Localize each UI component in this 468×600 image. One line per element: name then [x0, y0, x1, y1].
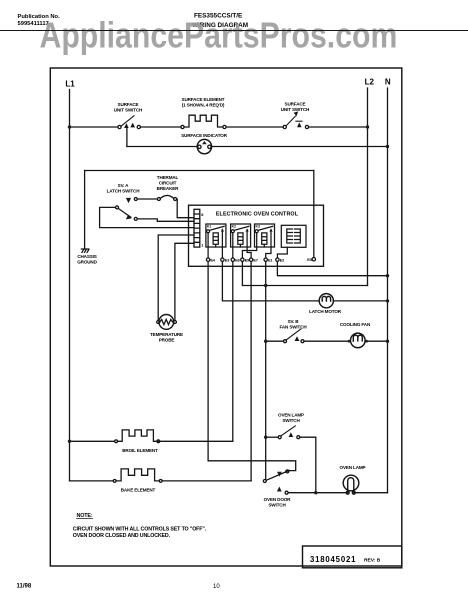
- svg-text:GROUND: GROUND: [77, 260, 97, 265]
- svg-text:SURFACE: SURFACE: [118, 102, 139, 107]
- wire relay3 contact to pin OE9: [242, 233, 256, 258]
- pin OE3: [221, 257, 230, 262]
- svg-text:318045021: 318045021: [310, 555, 356, 564]
- connector strip: [194, 209, 200, 247]
- surface indicator: [197, 139, 211, 153]
- wire relay2 contact to pin OE8: [232, 233, 234, 258]
- temperature probe: [157, 315, 177, 330]
- outer border: [50, 68, 402, 566]
- wire indicator drop: [126, 128, 128, 147]
- svg-text:11/98: 11/98: [17, 584, 32, 590]
- svg-text:SWITCH: SWITCH: [268, 503, 286, 508]
- relay K2: [231, 224, 251, 247]
- wire OE8 drop to broil: [232, 262, 234, 442]
- svg-text:K1: K1: [207, 225, 211, 229]
- label oven door switch: [264, 497, 292, 508]
- pin OE4: [206, 257, 215, 262]
- svg-text:L2: L2: [365, 77, 375, 86]
- label SV. A latch switch: [107, 183, 141, 194]
- relay K3: [255, 224, 275, 247]
- pin number 8: [201, 212, 204, 217]
- svg-text:L1: L1: [65, 80, 75, 89]
- node L1: [65, 80, 75, 89]
- node L2: [365, 77, 375, 86]
- wire L2 rail: [367, 88, 369, 286]
- header model number: [192, 13, 248, 29]
- label broil element: [122, 448, 158, 453]
- svg-text:CHASSIS: CHASSIS: [77, 254, 96, 259]
- part number text: [310, 555, 381, 564]
- label latch motor: [309, 309, 342, 314]
- svg-text:LATCH MOTOR: LATCH MOTOR: [309, 309, 342, 314]
- wire OE4 drop to oven door NC: [208, 262, 296, 471]
- svg-text:SWITCH: SWITCH: [282, 418, 300, 423]
- wire breaker to connector pin: [177, 199, 194, 218]
- pin OE7: [249, 257, 257, 262]
- svg-text:BROIL ELEMENT: BROIL ELEMENT: [122, 448, 158, 453]
- footer page number: [213, 584, 220, 590]
- part number box: [303, 546, 402, 568]
- wire OE3 drop to latch motor row: [222, 262, 319, 301]
- latch switch SV.A: [116, 198, 158, 221]
- wire probe lead left: [158, 235, 194, 321]
- pin OE8: [231, 257, 240, 262]
- header publication number: [18, 14, 61, 27]
- thermal circuit breaker: [157, 195, 176, 200]
- label SV. B fan switch: [279, 319, 307, 330]
- svg-text:THERMAL: THERMAL: [157, 175, 179, 180]
- wire chassis-to-E3O top run: [85, 170, 314, 172]
- svg-text:LATCH SWITCH: LATCH SWITCH: [107, 189, 141, 194]
- wire N rail: [387, 88, 389, 493]
- wire broil to OE8: [160, 440, 233, 442]
- wire OE2 drop to N: [277, 262, 387, 276]
- footer date: [17, 584, 32, 590]
- svg-text:SURFACE INDICATOR: SURFACE INDICATOR: [181, 133, 228, 138]
- svg-text:ELECTRONIC OVEN CONTROL: ELECTRONIC OVEN CONTROL: [216, 212, 299, 218]
- svg-text:SV. B: SV. B: [288, 319, 300, 324]
- label electronic oven control: [216, 212, 299, 218]
- wire OE1 drop chain: [265, 262, 267, 480]
- svg-text:COOLING FAN: COOLING FAN: [340, 322, 371, 327]
- wire latch motor to N: [333, 300, 387, 302]
- oven lamp switch: [266, 426, 316, 493]
- pin number 1: [201, 243, 204, 248]
- svg-text:REV: B: REV: B: [364, 557, 381, 563]
- wire latch common to connector: [100, 207, 194, 227]
- surface element: [181, 115, 226, 128]
- latch motor: [319, 294, 333, 308]
- relay K1: [206, 224, 226, 247]
- pin OE9: [241, 257, 250, 262]
- label surface indicator: [181, 133, 228, 138]
- cooling fan: [348, 333, 368, 348]
- svg-text:TEMPERATURE: TEMPERATURE: [150, 332, 183, 337]
- svg-text:SV. A: SV. A: [118, 183, 129, 188]
- svg-text:BREAKER: BREAKER: [157, 186, 179, 191]
- svg-text:OVEN LAMP: OVEN LAMP: [278, 412, 304, 417]
- svg-text:NOTE:: NOTE:: [77, 513, 93, 519]
- electronic oven control box: [189, 205, 324, 266]
- svg-text:K3: K3: [256, 225, 260, 229]
- label surface element: [182, 97, 225, 108]
- wire relay1 arrow to pin OE3: [221, 247, 223, 258]
- label bake element: [121, 487, 156, 492]
- note text: [73, 526, 207, 539]
- wire E3O drop: [313, 171, 315, 258]
- svg-text:OVEN DOOR: OVEN DOOR: [264, 497, 292, 502]
- wire transformer to pin OE2: [277, 247, 287, 258]
- wire indicator row: [127, 146, 196, 148]
- svg-text:FAN SWITCH: FAN SWITCH: [279, 324, 307, 329]
- svg-text:(1 SHOWN, 4 REQ'D): (1 SHOWN, 4 REQ'D): [182, 103, 225, 108]
- svg-text:CIRCUIT: CIRCUIT: [159, 180, 177, 185]
- label oven lamp: [340, 465, 366, 470]
- svg-text:OVEN LAMP: OVEN LAMP: [340, 465, 366, 470]
- surface unit switch SW1: [118, 116, 140, 129]
- svg-text:CIRCUIT SHOWN WITH ALL CONTROL: CIRCUIT SHOWN WITH ALL CONTROLS SET TO "…: [73, 526, 207, 532]
- wire chassis ground drop: [84, 171, 86, 250]
- oven lamp: [343, 475, 359, 494]
- oven door switch: [263, 470, 289, 494]
- wire relay1 contact to pin OE4: [207, 233, 209, 258]
- wire broil row: [70, 440, 115, 442]
- fan switch SV.B: [266, 329, 348, 343]
- label surface unit switch 2: [281, 101, 310, 112]
- header rule: [0, 30, 468, 32]
- transformer T1: [281, 225, 306, 247]
- svg-text:BAKE ELEMENT: BAKE ELEMENT: [121, 487, 156, 492]
- svg-text:K2: K2: [232, 225, 236, 229]
- svg-text:N: N: [385, 77, 391, 86]
- svg-text:PROBE: PROBE: [159, 338, 175, 343]
- note heading: [77, 513, 93, 519]
- wire oven lamp row: [288, 492, 346, 494]
- wire top rail: [70, 126, 118, 128]
- wire bake row: [70, 480, 114, 482]
- svg-text:SURFACE ELEMENT: SURFACE ELEMENT: [182, 97, 225, 102]
- svg-text:OVEN DOOR CLOSED AND UNLOCKED.: OVEN DOOR CLOSED AND UNLOCKED.: [73, 533, 171, 539]
- svg-text:10: 10: [213, 584, 220, 590]
- pin OE2: [276, 257, 285, 262]
- wire cooling fan to N: [368, 340, 388, 342]
- wire latch NO to connector: [137, 219, 194, 221]
- svg-text:AppliancePartsPros.com: AppliancePartsPros.com: [40, 16, 398, 56]
- pin OE1: [264, 257, 273, 262]
- bake element: [113, 469, 162, 482]
- wire OE9 drop to L2 row: [242, 262, 367, 286]
- wire OE7 drop to bake: [250, 262, 252, 481]
- wire probe lead right: [175, 243, 194, 320]
- svg-text:SURFACE: SURFACE: [285, 101, 306, 106]
- surface unit switch SW2: [283, 111, 309, 128]
- svg-text:UNIT SWITCH: UNIT SWITCH: [281, 107, 310, 112]
- broil element: [115, 430, 160, 443]
- pin E3O: [307, 257, 315, 262]
- wire bake to OE7: [162, 480, 251, 482]
- wire L1 rail: [69, 90, 71, 481]
- watermark: [40, 16, 398, 56]
- svg-text:E7: E7: [253, 257, 257, 262]
- label surface unit switch 1: [114, 102, 143, 113]
- wire relay2 arrow to pin OE7: [247, 247, 251, 258]
- svg-text:UNIT SWITCH: UNIT SWITCH: [114, 108, 143, 113]
- chassis ground: [81, 249, 89, 252]
- node N: [385, 77, 391, 86]
- wire relay3 arrow to pin OE1: [266, 247, 271, 258]
- label temperature probe: [150, 332, 183, 343]
- label oven lamp switch: [278, 412, 304, 423]
- label chassis ground: [77, 254, 97, 265]
- label thermal circuit breaker: [157, 175, 179, 191]
- label cooling fan: [340, 322, 371, 327]
- wire oven lamp to N: [355, 492, 387, 494]
